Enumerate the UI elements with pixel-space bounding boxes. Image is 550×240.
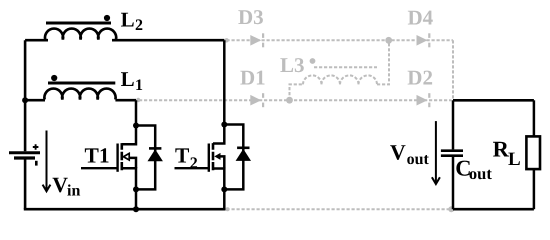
wire: top rail from L2 to T2 drain corner — [112, 39, 224, 42]
svg-text:L3: L3 — [280, 53, 305, 77]
node: left rail / L1 junction — [22, 97, 28, 103]
svg-text:out: out — [407, 151, 430, 168]
wire: RL branch upper — [533, 100, 536, 137]
T1 body arrow (open) — [123, 153, 129, 160]
node: T1 drain junction — [133, 123, 139, 129]
transistor T1 drain lead and vertical to L1 row — [122, 100, 136, 144]
polarity dot of L1 — [51, 75, 57, 81]
battery minus tick — [35, 161, 38, 166]
inductor L3 (dashed) — [303, 75, 322, 84]
wire: L3 right lead up to D3-D4 row — [377, 40, 389, 84]
node: gray dot at L1/D1 corner — [136, 98, 140, 102]
wire: left rail lower — [24, 159, 27, 209]
core bar of L1 — [48, 82, 115, 85]
diode D4 — [417, 33, 431, 47]
svg-text:D1: D1 — [240, 65, 266, 89]
svg-text:L: L — [121, 67, 135, 91]
svg-text:2: 2 — [135, 17, 143, 34]
node: L3 right junction on D3-D4 row — [385, 37, 392, 44]
wire: output top — [453, 99, 534, 102]
svg-text:D2: D2 — [407, 66, 433, 90]
T2 gate bar — [208, 144, 210, 172]
T1 gate lead — [81, 167, 118, 169]
node: T1 source junction — [133, 186, 139, 192]
wire: RL branch lower — [533, 168, 536, 209]
inductor L2 — [45, 29, 116, 40]
diode T1 body diode — [149, 147, 161, 150]
wire: Cout branch upper — [452, 100, 455, 149]
arrow Vout — [435, 121, 437, 183]
wire: bottom rail — [24, 208, 226, 211]
wire: T1 diode branch — [136, 126, 155, 190]
wire: dashed vertical from D4 row down to output top — [452, 40, 454, 100]
wire: T2 diode branch — [224, 125, 243, 190]
wire: L1 row lead left — [25, 99, 45, 102]
node: T1 bottom rail junction — [133, 206, 139, 212]
node: L3 left junction — [286, 97, 293, 104]
T2 body connection — [220, 156, 224, 168]
svg-text:L: L — [121, 7, 135, 31]
T2 gate lead — [175, 167, 209, 169]
svg-text:V: V — [52, 173, 68, 197]
inductor L1 — [44, 89, 115, 100]
resistor RL — [526, 136, 540, 169]
arrow Vin — [46, 131, 48, 191]
diode D1 — [250, 93, 264, 107]
battery plus sign — [33, 144, 39, 150]
svg-text:D3: D3 — [238, 5, 264, 29]
svg-text:T1: T1 — [85, 143, 110, 167]
battery top plate — [9, 151, 40, 154]
T1 channel segments — [121, 143, 124, 170]
svg-text:out: out — [469, 164, 492, 183]
wire: L1 row lead right to T1 drain corner — [115, 99, 136, 102]
wire: top rail left lead — [25, 39, 48, 42]
T2 body arrow (filled) — [214, 153, 220, 160]
svg-text:T: T — [175, 143, 190, 167]
svg-text:D4: D4 — [408, 6, 434, 30]
wire: bottom dashed row — [227, 208, 452, 210]
diode T2 body diode — [237, 147, 249, 150]
svg-text:L: L — [508, 149, 521, 170]
diode D3 — [250, 33, 264, 47]
core bar of L2 — [46, 22, 111, 25]
T1 source lead and vertical to bottom rail — [122, 168, 136, 209]
node: T2 source junction — [221, 186, 227, 192]
svg-text:in: in — [67, 183, 80, 200]
wire: left rail upper — [24, 40, 27, 151]
node: gray dot at output bottom corner — [448, 206, 454, 212]
wire: D3-D4 dashed row — [227, 39, 454, 41]
transistor T2 drain lead and vertical up to top rail — [213, 40, 224, 143]
svg-text:1: 1 — [135, 77, 143, 94]
polarity dot of L3 — [310, 58, 316, 64]
T2 channel segments — [212, 143, 215, 170]
node: gray dot at top corner / D3 row — [224, 38, 228, 42]
T1 gate bar — [116, 144, 118, 172]
wire: D1-D2 dashed row — [139, 99, 452, 101]
wire: Cout branch lower — [452, 157, 455, 209]
polarity dot of L2 — [104, 15, 110, 21]
core bar of L3 (dashed) — [314, 66, 377, 68]
svg-text:V: V — [390, 141, 406, 165]
wire: L3 left lead — [290, 84, 304, 100]
T1 body connection — [129, 158, 136, 168]
node: gray dot at bottom rail / dashed row start — [226, 207, 230, 211]
gray dashed network — [139, 40, 453, 209]
T2 source lead and vertical to bottom rail — [213, 169, 224, 210]
battery bottom plate — [14, 156, 35, 159]
wire: output bottom — [453, 208, 534, 211]
capacitor Cout plates — [441, 151, 463, 156]
node: T2 drain junction — [221, 122, 227, 128]
svg-text:2: 2 — [190, 155, 198, 172]
diode D2 — [417, 93, 431, 107]
